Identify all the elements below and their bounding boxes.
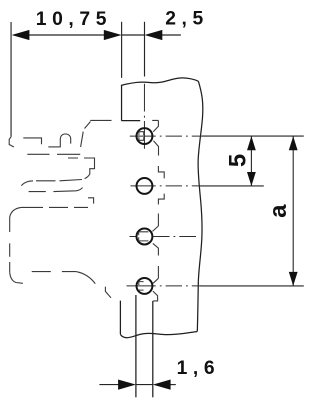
- housing right edge dash between holes 3-4: [157, 266, 159, 278]
- pin right side: [152, 301, 154, 397]
- hole 4 axis: [127, 285, 203, 287]
- board left edge lower: [119, 301, 121, 335]
- lower housing bottom edge: [32, 271, 76, 273]
- claw at hole 2 (stepped): [158, 166, 164, 205]
- vertical hole axis above hole 1: [143, 84, 145, 149]
- housing step right edge: [68, 158, 95, 174]
- extension line left: [10, 22, 12, 137]
- hole 4: [137, 278, 153, 294]
- pin left side: [135, 295, 137, 397]
- lower housing left edge: [9, 217, 11, 272]
- arrowhead 10,75 left: [12, 30, 30, 40]
- lower housing left rounded corner: [10, 207, 22, 217]
- board bottom edge (wavy break): [120, 332, 197, 338]
- pin in hole 4: [139, 282, 144, 291]
- board top edge (wavy break): [121, 78, 198, 86]
- arrowhead a top: [289, 136, 298, 150]
- extension at hole1 level: [202, 135, 304, 137]
- svg-text:10,75: 10,75: [36, 9, 112, 30]
- arrowhead a bottom: [289, 272, 298, 286]
- dimension line 2,5: [122, 34, 145, 36]
- claw at hole 3: [152, 226, 158, 256]
- housing top edge at y=120.4: [90, 119, 158, 121]
- extension at hole4 level: [201, 285, 304, 287]
- claw at hole 1: [153, 120, 158, 155]
- arrowhead 10,75 right: [104, 30, 122, 40]
- extension line mid (left edge of board): [121, 22, 123, 78]
- extension line at hole axis: [144, 22, 146, 77]
- housing inner dash y146.9: [48, 146, 60, 148]
- housing tab: [60, 134, 70, 147]
- housing dash y154.3: [27, 153, 80, 155]
- svg-text:2,5: 2,5: [165, 9, 209, 30]
- svg-text:5: 5: [224, 154, 251, 167]
- extension at hole2 level: [200, 185, 264, 187]
- lower housing top edge: [22, 206, 89, 208]
- svg-text:a: a: [265, 204, 292, 218]
- housing right edge dash between holes 2-3: [157, 214, 159, 227]
- board corner line at y=120.6: [121, 120, 140, 122]
- between pins: [136, 384, 153, 386]
- housing slanted edge: [81, 122, 91, 148]
- claw at hole 4: [153, 278, 159, 301]
- hole 1: [137, 128, 153, 144]
- housing inner box: [23, 138, 41, 144]
- pin in hole 3: [139, 232, 149, 241]
- break line lower: [29, 188, 83, 192]
- arrowhead 5 top: [247, 136, 256, 150]
- hole 3: [137, 229, 153, 245]
- arrowhead 5 bottom: [247, 172, 256, 186]
- dimension line 10,75: [28, 34, 105, 36]
- break line upper: [21, 174, 90, 185]
- board left edge upper: [121, 85, 123, 120]
- arrowhead 1,6 right (points left): [153, 380, 171, 390]
- lower housing bottom left corner: [10, 272, 23, 283]
- lower housing right corner: [88, 198, 94, 204]
- svg-text:1,6: 1,6: [177, 358, 221, 379]
- arrowhead 2,5 (points left, tip at hole axis): [145, 30, 163, 40]
- hole 2 axis: [131, 185, 201, 187]
- tail right: [170, 384, 176, 386]
- board right edge (wavy break): [197, 81, 203, 331]
- hole 3 axis: [130, 236, 197, 238]
- arrowhead 1,6 left (points right): [118, 380, 136, 390]
- pin in hole 1: [139, 132, 144, 141]
- tail line right of 2,5 arrow: [162, 34, 181, 36]
- hole 2: [137, 178, 153, 194]
- tail left: [99, 384, 118, 386]
- hole 1 axis: [130, 135, 202, 137]
- lower housing bottom curve to board: [76, 272, 111, 298]
- housing left jog below extension line: [9, 137, 14, 147]
